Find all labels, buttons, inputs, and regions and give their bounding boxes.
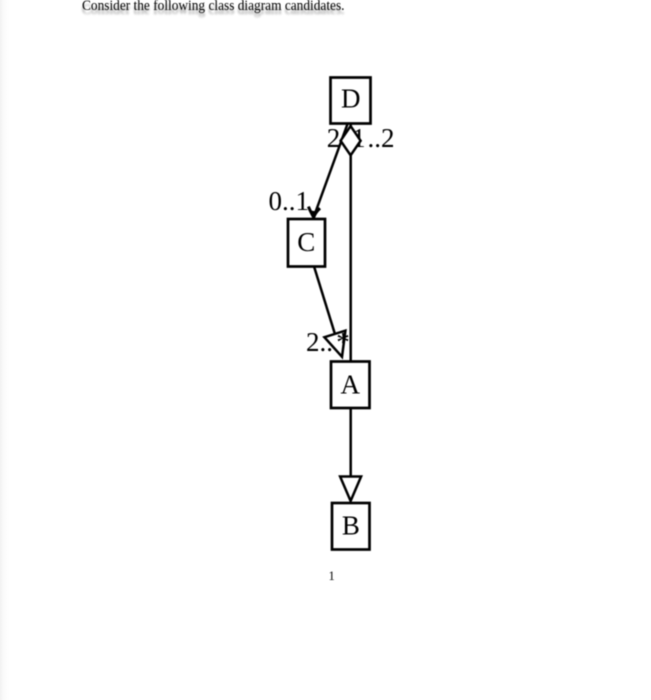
svg-text:D: D bbox=[341, 83, 361, 113]
wire: generalization A to B (vertical) bbox=[349, 408, 352, 477]
svg-text:C: C bbox=[297, 227, 315, 257]
wire: association D to A (vertical) bbox=[349, 124, 352, 361]
arrowhead into C (vee) bbox=[308, 207, 320, 218]
svg-text:2: 2 bbox=[327, 123, 341, 153]
class D box bbox=[331, 78, 371, 124]
aggregation diamond at D bbox=[341, 126, 361, 155]
hollow triangle arrowhead at A bbox=[324, 331, 345, 357]
svg-text:0..1: 0..1 bbox=[269, 186, 310, 216]
wire: association D to C bbox=[314, 124, 348, 217]
hollow triangle arrowhead at B bbox=[340, 477, 361, 502]
wire: generalization C to A bbox=[314, 267, 335, 334]
svg-text:1: 1 bbox=[329, 569, 335, 583]
svg-text:A: A bbox=[340, 370, 360, 400]
class C box bbox=[288, 219, 325, 267]
class A box bbox=[331, 362, 370, 409]
svg-text:Consider the following class d: Consider the following class diagram can… bbox=[82, 2, 345, 18]
class B box bbox=[332, 503, 370, 550]
svg-text:2..*: 2..* bbox=[306, 327, 350, 357]
svg-text:B: B bbox=[342, 511, 360, 541]
